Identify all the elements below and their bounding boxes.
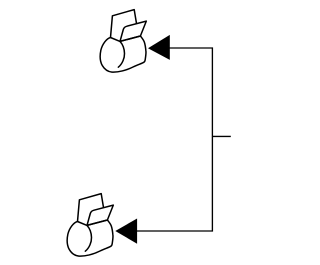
P1 back tab	[111, 10, 137, 38]
P2 front tab	[87, 205, 113, 225]
P2 cylinder face crease	[85, 225, 91, 251]
bracket wire: arrow1 tail, right vertical, arrow2 tail	[137, 48, 213, 231]
callout arrow 1 (points at P1)	[148, 35, 170, 60]
P2 back tab	[78, 194, 104, 222]
bracket center tick	[212, 135, 230, 137]
part sketch P1 (top unit)	[100, 10, 146, 73]
part sketch P2 (bottom unit, same as P1 shifted)	[67, 194, 113, 257]
callout arrow 2 (points at P2)	[115, 219, 137, 244]
P1 front tab	[120, 21, 146, 41]
P2 body outline	[67, 220, 113, 256]
P1 cylinder face crease	[118, 41, 124, 67]
P1 body outline	[100, 36, 146, 72]
